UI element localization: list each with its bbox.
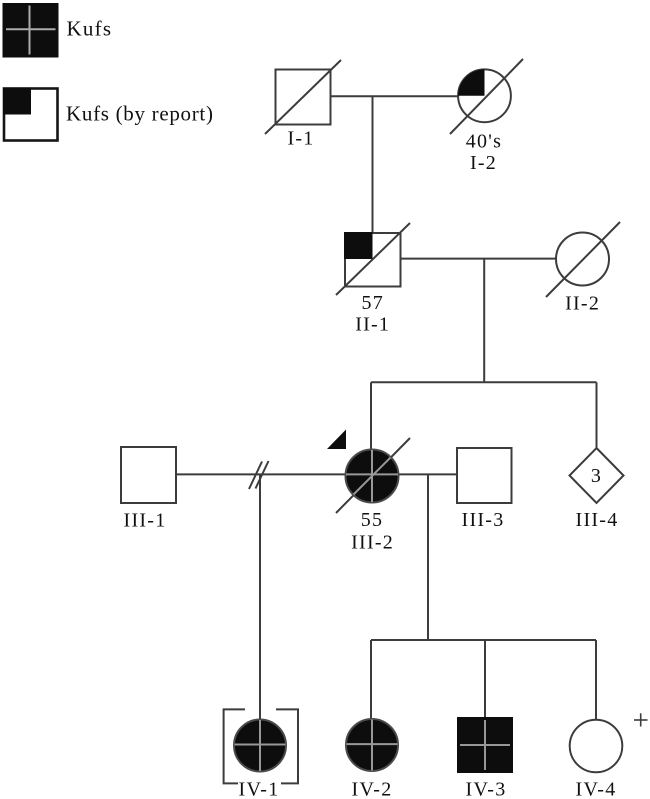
svg-text:55: 55 — [361, 509, 384, 531]
svg-text:II-1: II-1 — [355, 314, 390, 336]
wire: drop to III-4 — [596, 382, 598, 449]
svg-text:IV-3: IV-3 — [466, 779, 507, 799]
svg-text:I-1: I-1 — [287, 128, 314, 150]
svg-text:III-4: III-4 — [576, 509, 619, 531]
individual I-1 (deceased male) — [265, 60, 341, 134]
wire: drop to III-2 — [370, 382, 372, 452]
wire: generation IV sibship line — [371, 639, 596, 641]
svg-text:IV-2: IV-2 — [352, 779, 393, 799]
wire: drop from generation II couple — [483, 259, 485, 383]
svg-text:IV-1: IV-1 — [239, 779, 280, 799]
wire: drop from III-1/III-2 couple to IV-1 — [259, 474, 261, 719]
wire: couple line III-1 to III-2 to III-3 — [177, 473, 458, 475]
individual II-1 (deceased male, quarter filled, Kufs by report) — [336, 223, 410, 295]
svg-text:IV-4: IV-4 — [576, 779, 617, 799]
wire: couple line II-1 to II-2 — [401, 258, 557, 260]
wire: drop to IV-2 — [370, 640, 372, 719]
legend quarter-filled square (Kufs by report) — [3, 88, 58, 141]
svg-text:II-2: II-2 — [565, 293, 600, 315]
individual II-2 (deceased female) — [546, 222, 620, 297]
individual III-3 (male) — [457, 448, 512, 503]
svg-text:I-2: I-2 — [470, 152, 497, 174]
svg-text:40's: 40's — [466, 130, 502, 152]
wire: generation III sibship line — [371, 381, 597, 383]
individual III-4 (diamond, 3 individuals) — [570, 448, 624, 503]
individual IV-4 (female) — [570, 720, 623, 773]
wire: drop to IV-4 — [595, 640, 597, 720]
proband arrow for III-2 — [327, 430, 346, 450]
svg-text:3: 3 — [591, 465, 602, 487]
wire: drop from generation I couple to II-1 — [372, 96, 374, 233]
svg-text:Kufs: Kufs — [67, 17, 113, 41]
svg-text:III-3: III-3 — [462, 509, 505, 531]
individual IV-3 (affected male) — [457, 717, 513, 773]
individual III-1 (male) — [121, 447, 176, 503]
individual III-2 (affected deceased female, proband) — [336, 438, 410, 513]
svg-text:III-1: III-1 — [124, 510, 167, 532]
plus sign next to IV-4 — [634, 713, 648, 726]
svg-text:57: 57 — [361, 292, 384, 314]
legend filled square (Kufs) — [3, 3, 59, 58]
individual IV-2 (affected female) — [346, 719, 398, 771]
adoption brackets around IV-1 — [224, 709, 298, 783]
wire: couple line I-1 to I-2 — [331, 95, 459, 97]
individual I-2 (deceased female, quarter filled) — [450, 59, 523, 134]
svg-text:Kufs (by report): Kufs (by report) — [66, 102, 214, 126]
wire: drop from III-2/III-3 couple — [427, 474, 429, 640]
svg-text:III-2: III-2 — [351, 531, 394, 553]
individual IV-1 (affected female, adopted) — [234, 720, 286, 772]
separation double slash — [249, 461, 269, 489]
wire: drop to IV-3 — [484, 640, 486, 717]
